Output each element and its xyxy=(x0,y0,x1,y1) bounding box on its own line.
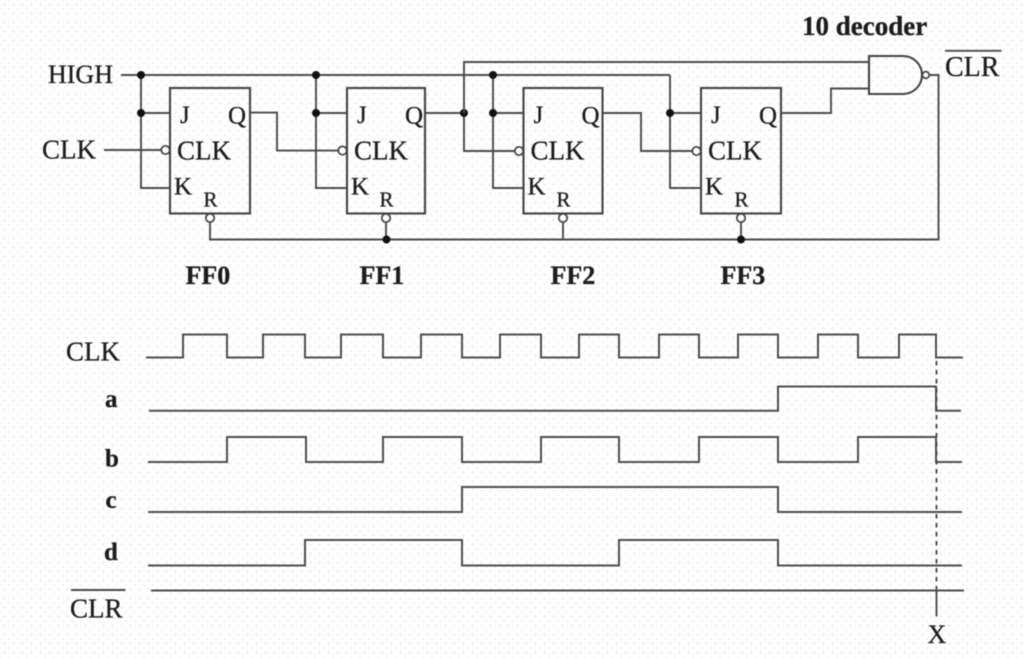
waveform b (Q0) xyxy=(148,437,962,462)
junction FF3 J xyxy=(666,109,674,117)
svg-text:K: K xyxy=(528,174,546,201)
svg-text:d: d xyxy=(104,539,118,566)
wire CLR net: NAND output to reset bus xyxy=(210,75,939,240)
junction HIGH-FF2 xyxy=(489,71,497,79)
waveform CLR xyxy=(151,590,964,592)
svg-text:X: X xyxy=(928,620,947,649)
wire HIGH rail xyxy=(121,74,670,76)
svg-text:FF3: FF3 xyxy=(721,261,766,290)
wire FF3 J stub xyxy=(670,112,701,114)
flip-flop FF1 xyxy=(347,88,425,214)
svg-text:10 decoder: 10 decoder xyxy=(802,11,927,41)
svg-text:CLR: CLR xyxy=(70,594,123,624)
junction FF2 J xyxy=(489,109,497,117)
svg-text:c: c xyxy=(106,487,117,514)
svg-text:R: R xyxy=(557,188,571,212)
clock bubble FF2 xyxy=(515,147,523,155)
svg-text:Q: Q xyxy=(228,103,246,130)
svg-text:J: J xyxy=(180,102,190,129)
wire Q2 to FF3 clock xyxy=(603,113,693,151)
junction CLR-FF3 xyxy=(737,236,745,244)
svg-text:CLK: CLK xyxy=(354,136,409,166)
solid marker stub at X xyxy=(936,590,938,617)
svg-text:K: K xyxy=(351,174,369,201)
svg-text:Q: Q xyxy=(582,103,600,130)
junction Q1 branch xyxy=(460,109,468,117)
svg-text:CLK: CLK xyxy=(42,135,97,165)
clock bubble FF3 xyxy=(692,147,700,155)
dashed marker line at X xyxy=(936,361,938,590)
wire FF0 J stub xyxy=(141,112,170,114)
wire Q0 to FF1 clock xyxy=(250,113,338,151)
svg-text:CLK: CLK xyxy=(708,136,763,166)
waveform CLK xyxy=(146,335,963,358)
flip-flop FF3 xyxy=(701,88,781,214)
reset bubble FF1 xyxy=(382,214,390,222)
svg-text:R: R xyxy=(204,188,218,212)
svg-text:K: K xyxy=(174,174,192,201)
wire FF0 J/K branch xyxy=(141,75,170,188)
junction FF1 J xyxy=(312,109,320,117)
wire FF2 J/K branch xyxy=(493,75,524,188)
overline of CLR output xyxy=(945,50,1002,52)
svg-text:R: R xyxy=(380,188,394,212)
junction FF0 J xyxy=(137,109,145,117)
svg-text:FF0: FF0 xyxy=(186,261,231,290)
svg-text:FF1: FF1 xyxy=(360,261,405,290)
svg-text:b: b xyxy=(105,446,119,473)
svg-text:Q: Q xyxy=(405,103,423,130)
svg-text:CLK: CLK xyxy=(177,136,232,166)
wire CLK input xyxy=(104,149,161,151)
svg-text:CLR: CLR xyxy=(945,52,1000,83)
wire Q1 to NAND top input xyxy=(464,62,869,113)
svg-text:CLK: CLK xyxy=(531,136,586,166)
wire FF1 J stub xyxy=(316,112,347,114)
junction HIGH-FF0 xyxy=(137,71,145,79)
clock bubble FF0 xyxy=(161,146,169,154)
NAND output bubble xyxy=(922,72,929,79)
NAND gate decoder xyxy=(869,56,922,94)
wire FF2 reset stub xyxy=(562,223,564,240)
reset bubble FF0 xyxy=(206,214,214,222)
svg-text:J: J xyxy=(534,102,544,129)
svg-text:HIGH: HIGH xyxy=(48,60,113,89)
svg-text:a: a xyxy=(105,386,118,413)
waveform c (Q2) xyxy=(148,487,962,512)
svg-text:K: K xyxy=(705,174,723,201)
reset bubble FF3 xyxy=(737,214,745,222)
svg-text:J: J xyxy=(711,102,721,129)
wire FF1 reset stub xyxy=(385,222,387,240)
waveform d (Q1) xyxy=(148,540,962,566)
svg-text:CLK: CLK xyxy=(66,337,121,367)
reset bubble FF2 xyxy=(559,214,567,222)
clock bubble FF1 xyxy=(338,146,346,154)
wire FF3 J/K branch xyxy=(670,75,701,188)
svg-text:Q: Q xyxy=(759,103,777,130)
svg-text:R: R xyxy=(735,188,749,212)
flip-flop FF0 xyxy=(170,88,250,214)
svg-text:FF2: FF2 xyxy=(551,261,596,290)
overline of CLR label xyxy=(71,589,126,591)
wire FF3 reset stub xyxy=(740,223,742,240)
wire Q3 to NAND bottom input xyxy=(781,89,869,114)
junction HIGH-FF1 xyxy=(312,71,320,79)
waveform a (Q3) xyxy=(149,387,961,411)
junction CLR-FF1 xyxy=(383,236,391,244)
svg-text:J: J xyxy=(357,102,367,129)
wire FF1 J/K branch xyxy=(316,75,347,188)
flip-flop FF2 xyxy=(524,88,603,214)
wire Q1 to FF2 clock xyxy=(425,113,515,151)
wire FF2 J stub xyxy=(493,112,524,114)
